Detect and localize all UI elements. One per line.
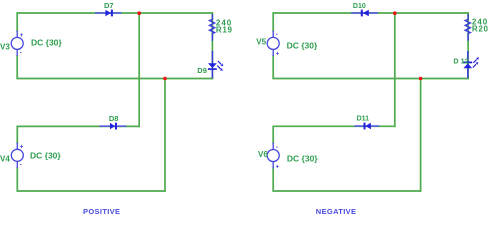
svg-text:D8: D8 [109, 114, 119, 123]
svg-text:DC {30}: DC {30} [287, 41, 318, 51]
svg-text:+: + [276, 165, 280, 171]
svg-text:-: - [20, 163, 22, 169]
svg-text:-: - [20, 51, 22, 57]
svg-text:DC {30}: DC {30} [31, 37, 62, 47]
svg-text:POSITIVE: POSITIVE [83, 207, 120, 216]
svg-text:V4: V4 [0, 155, 10, 164]
svg-text:NEGATIVE: NEGATIVE [316, 207, 357, 216]
svg-text:D7: D7 [104, 1, 114, 10]
svg-text:V3: V3 [0, 43, 10, 52]
svg-text:V5: V5 [256, 38, 266, 47]
svg-text:DC {30}: DC {30} [30, 150, 61, 160]
svg-text:+: + [20, 33, 24, 39]
svg-text:-: - [276, 145, 278, 151]
svg-text:-: - [276, 32, 278, 38]
svg-text:DC {30}: DC {30} [287, 154, 318, 164]
svg-text:D9: D9 [197, 66, 207, 75]
svg-text:D11: D11 [357, 116, 370, 123]
svg-text:+: + [276, 51, 280, 57]
svg-text:V6: V6 [258, 150, 268, 159]
svg-text:R19: R19 [216, 25, 233, 34]
svg-text:D 12: D 12 [453, 57, 468, 66]
svg-text:+: + [20, 145, 24, 151]
svg-text:D10: D10 [353, 3, 366, 10]
svg-text:R20: R20 [472, 24, 489, 33]
